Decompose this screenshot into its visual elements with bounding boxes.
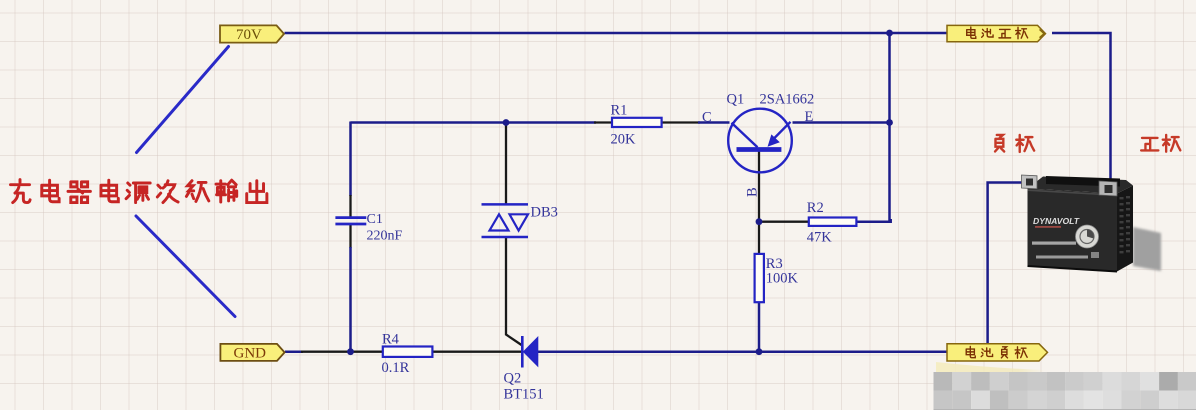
wire: bottom rail black to R4 xyxy=(301,351,384,353)
svg-text:C: C xyxy=(702,110,712,126)
junction node: top right xyxy=(886,30,893,37)
svg-text:Q1: Q1 xyxy=(727,92,745,108)
battery small text lines xyxy=(1032,242,1076,245)
wire: node to R3 top xyxy=(758,222,760,255)
red annotation 负极 xyxy=(995,135,1034,152)
svg-text:70V: 70V xyxy=(236,27,262,43)
svg-text:DYNAVOLT: DYNAVOLT xyxy=(1033,216,1080,226)
red annotation 正极 xyxy=(1141,135,1180,152)
wire: emitter to right bus xyxy=(793,121,890,124)
battery shadow xyxy=(1133,227,1161,271)
junction node: base R2 R3 xyxy=(756,218,763,225)
junction node: R3 bottom rail xyxy=(756,348,763,355)
wire: bottom rail from GND flag xyxy=(285,350,303,353)
thyristor Q2 xyxy=(522,336,538,368)
wire: middle rail xyxy=(351,121,597,124)
battery terminal positive xyxy=(1099,181,1117,196)
svg-text:Q2: Q2 xyxy=(504,371,522,387)
svg-text:BT151: BT151 xyxy=(504,387,544,403)
resistor R2 xyxy=(809,218,857,226)
svg-text:2SA1662: 2SA1662 xyxy=(760,92,815,108)
wire: C1 black lead top xyxy=(349,195,351,217)
flag battery negative 电池负极 xyxy=(947,344,1048,361)
watermark mosaic xyxy=(934,372,1196,410)
capacitor C1 xyxy=(335,218,366,224)
wire: middle rail black segment left of R1 xyxy=(594,121,613,123)
svg-text:C1: C1 xyxy=(367,212,383,227)
battery body xyxy=(1028,176,1134,272)
wire: DB3 branch upper xyxy=(505,123,507,204)
svg-text:GND: GND xyxy=(234,345,267,361)
svg-text:220nF: 220nF xyxy=(367,229,403,244)
wire: right vertical bus xyxy=(888,33,891,222)
flag 70V xyxy=(220,25,284,43)
wire: bottom rail black R4 to Q2 xyxy=(432,351,522,353)
wire: R3 bottom to bottom rail xyxy=(758,302,761,352)
battery badge xyxy=(1076,225,1099,248)
resistor R3 xyxy=(755,254,764,302)
red annotation 充电器电源次级输出 xyxy=(10,180,266,203)
wire: into Q1 collector xyxy=(698,121,730,124)
wire: base node to R2 xyxy=(759,221,810,223)
watermark smear xyxy=(0,0,1,1)
wire: C1 black lead bottom xyxy=(349,225,351,249)
annotation line to GND xyxy=(136,216,235,317)
svg-text:0.1R: 0.1R xyxy=(382,360,410,376)
wire: battery negative lead xyxy=(988,183,1027,345)
wire: top rail from 70V flag to right xyxy=(285,32,948,35)
svg-text:R2: R2 xyxy=(807,200,824,216)
svg-text:R4: R4 xyxy=(382,331,400,347)
junction node: DB3 tap xyxy=(503,119,510,126)
flag battery positive 电池正极 xyxy=(947,25,1046,41)
svg-text:E: E xyxy=(805,109,814,125)
wire: DB3 branch lower to Q2 gate xyxy=(506,238,522,345)
wire: bottom rail Q2 to battery negative label xyxy=(537,350,947,353)
wire: middle rail black segment right of R1 xyxy=(661,121,700,123)
svg-text:47K: 47K xyxy=(807,229,833,245)
wire: C1 branch vertical upper xyxy=(349,122,352,197)
resistor R4 xyxy=(383,347,433,357)
junction node: C1 bottom xyxy=(347,348,354,355)
annotation line to 70V xyxy=(137,47,229,153)
wire: R2 to right bus xyxy=(856,219,891,222)
wire: battery positive label to battery xyxy=(1052,33,1111,184)
svg-text:DB3: DB3 xyxy=(531,205,558,221)
wire: Q1 base down xyxy=(758,152,760,222)
junction node: emitter bus xyxy=(886,119,893,126)
flag GND xyxy=(220,344,284,362)
svg-text:100K: 100K xyxy=(766,270,799,286)
battery terminal negative xyxy=(1022,175,1038,189)
resistor R1 xyxy=(612,118,662,127)
transistor Q1 xyxy=(728,109,792,173)
diac DB3 xyxy=(482,204,529,237)
svg-text:B: B xyxy=(745,187,761,197)
svg-text:20K: 20K xyxy=(611,132,637,148)
svg-text:R1: R1 xyxy=(611,103,628,119)
wire: C1 branch vertical lower xyxy=(349,247,352,352)
